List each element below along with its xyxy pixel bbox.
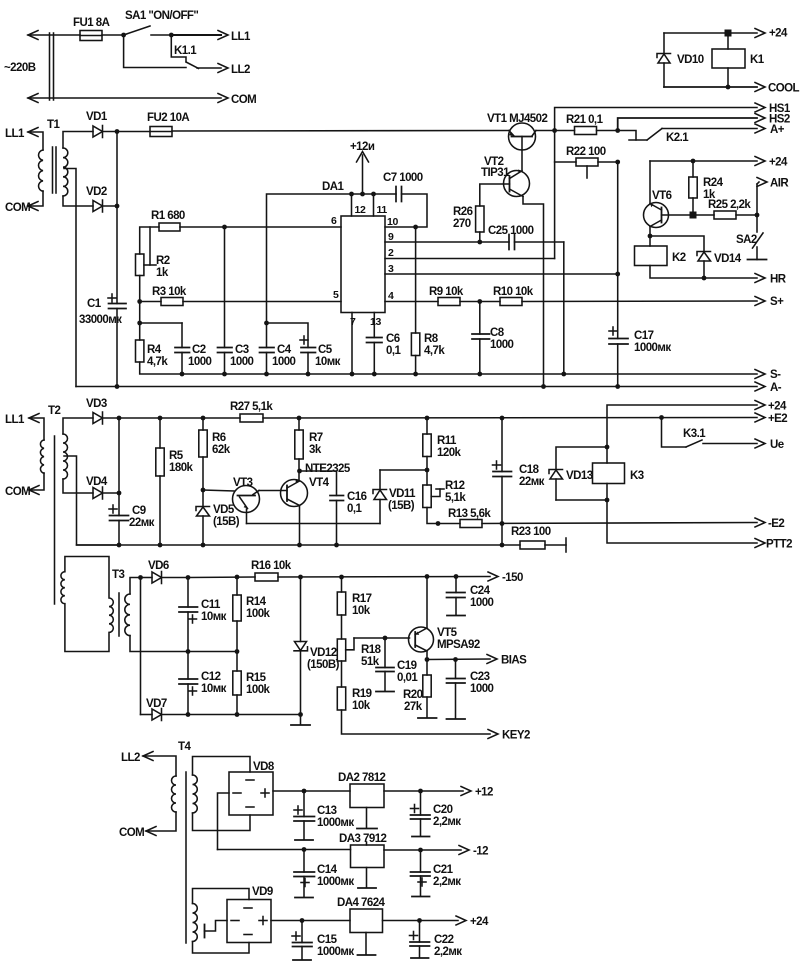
- svg-text:0,1: 0,1: [347, 503, 362, 515]
- junction VD4 node: [117, 491, 122, 496]
- svg-text:R19: R19: [352, 688, 372, 700]
- wire R15 bottom: [236, 695, 238, 715]
- wire FU2 to VT1: [172, 130, 509, 133]
- wire +12 feed vertical: [267, 194, 397, 323]
- wire K1.1 upper lead: [171, 35, 186, 62]
- arrow left mains bottom: [28, 94, 38, 103]
- wire mains top: [28, 34, 80, 36]
- wire to +24 arrow mid: [693, 160, 757, 162]
- resistor R1: [159, 223, 180, 231]
- wire R18 wiper: [346, 638, 354, 650]
- switch K2.1 lever: [647, 129, 662, 141]
- polarity plus C11: [189, 615, 197, 623]
- capacitor C9 top lead: [118, 493, 120, 516]
- svg-text:1000: 1000: [470, 597, 494, 609]
- arrow +24 top: [755, 29, 765, 38]
- arrow A-: [755, 382, 765, 391]
- svg-text:C8: C8: [490, 327, 505, 339]
- svg-text:COM: COM: [5, 486, 30, 498]
- transistor VT4: [281, 480, 308, 507]
- svg-text:R24: R24: [703, 177, 724, 189]
- svg-text:2,2мк: 2,2мк: [433, 876, 461, 888]
- wire rectifier bus: [116, 132, 118, 207]
- wire R22 drop: [554, 131, 556, 259]
- svg-text:13: 13: [370, 316, 381, 328]
- svg-text:12: 12: [355, 204, 366, 216]
- capacitor C21: [411, 872, 431, 876]
- wire K2 bottom to HR: [650, 266, 757, 279]
- svg-text:SA2: SA2: [736, 234, 757, 246]
- wire K2.1 feed: [618, 131, 636, 141]
- wire DA2 ground pin: [366, 808, 368, 829]
- svg-text:R20: R20: [403, 689, 423, 701]
- wire T1 secondary bottom lead: [63, 196, 93, 206]
- capacitor C5: [301, 348, 316, 353]
- wire LL1 to T1 primary: [28, 132, 43, 150]
- svg-text:R23 100: R23 100: [511, 526, 551, 538]
- junction C8 top: [477, 299, 482, 304]
- wire T3 secondary top lead: [130, 578, 141, 595]
- wire VT1 emitter side to R21 node: [536, 130, 555, 132]
- ground SA2: [748, 259, 767, 261]
- wire R11 bottom: [426, 457, 428, 471]
- wire R9 to R10: [460, 301, 500, 303]
- junction rectifier bottom: [115, 204, 120, 209]
- wire R25 right: [736, 214, 757, 216]
- junction R8 on S-: [413, 372, 418, 377]
- transistor VT3: [233, 486, 260, 513]
- svg-text:MPSA92: MPSA92: [437, 639, 480, 651]
- junction C2 branch: [137, 321, 142, 326]
- wire R3 left lead: [140, 301, 161, 303]
- wire R17 to R18: [341, 615, 343, 639]
- svg-text:LL1: LL1: [5, 128, 25, 140]
- resistor R12 trimmer leads: [426, 470, 428, 485]
- junction K1 bottom: [726, 85, 731, 90]
- diode VD4: [93, 487, 103, 499]
- svg-text:HR: HR: [770, 274, 787, 286]
- svg-text:120k: 120k: [437, 447, 462, 459]
- svg-text:+24: +24: [769, 28, 788, 40]
- capacitor C5 bottom lead: [307, 353, 309, 375]
- svg-text:C16: C16: [347, 491, 367, 503]
- svg-text:3k: 3k: [309, 444, 322, 456]
- transistor VT5: [409, 627, 434, 652]
- capacitor C18 bottom lead: [501, 477, 503, 524]
- pin 11 lead: [373, 194, 375, 216]
- capacitor C12: [179, 679, 198, 684]
- svg-text:C7 1000: C7 1000: [383, 172, 423, 184]
- capacitor C6 bottom lead: [373, 343, 375, 375]
- junction C20 top: [418, 789, 423, 794]
- wire VT2 base to R26: [480, 184, 510, 206]
- junction C5 on S-: [306, 372, 311, 377]
- wire R12 to R13: [427, 508, 460, 524]
- polarity plus C17: [609, 327, 617, 335]
- capacitor C8: [472, 334, 490, 339]
- relay coil K1: [712, 49, 745, 68]
- arrow HS1: [755, 103, 765, 112]
- terminator R23: [565, 538, 567, 552]
- svg-text:R12: R12: [445, 480, 465, 492]
- svg-text:R22 100: R22 100: [566, 146, 606, 158]
- arrow +24 mid: [755, 157, 765, 166]
- svg-text:VT5: VT5: [437, 627, 458, 639]
- wire K1.1 fixed contact feed: [124, 35, 186, 68]
- arrow -12: [459, 846, 469, 855]
- wire LL1 to T2 primary: [29, 418, 44, 440]
- resistor R19: [337, 687, 345, 710]
- capacitor C20: [411, 815, 431, 819]
- svg-text:K3.1: K3.1: [683, 428, 706, 440]
- svg-text:(15В): (15В): [213, 516, 240, 528]
- svg-text:+24: +24: [470, 916, 489, 928]
- svg-text:AIR: AIR: [770, 178, 789, 190]
- wire VT5 emitter riser: [426, 577, 428, 629]
- IC DA1: [341, 216, 385, 313]
- svg-text:R5: R5: [169, 450, 184, 462]
- polarity plus C5: [300, 336, 308, 344]
- svg-text:S+: S+: [770, 296, 784, 308]
- junction VT6 base node: [690, 212, 697, 219]
- arrow COM T2: [29, 486, 39, 495]
- resistor R20 leads: [426, 660, 428, 676]
- wire R2 to R3 node: [139, 276, 141, 302]
- svg-text:62k: 62k: [212, 444, 231, 456]
- junction C23 top: [453, 657, 458, 662]
- svg-text:VD3: VD3: [86, 398, 107, 410]
- power +12i arrow: [357, 152, 369, 195]
- transformer T4 secondary2 winding: [193, 904, 198, 942]
- junction R14 top: [235, 575, 240, 580]
- junction VD6 VD7 node: [138, 575, 143, 580]
- capacitor C14 top lead: [303, 850, 305, 873]
- junction R5 top: [158, 416, 163, 421]
- svg-text:(15В): (15В): [388, 500, 415, 512]
- arrow BIAS: [487, 655, 497, 664]
- wire R24 bottom: [692, 198, 694, 215]
- polarity plus C14: [301, 879, 309, 887]
- capacitor C3: [218, 348, 233, 353]
- junction R17 top: [339, 575, 344, 580]
- wire T1 center tap: [64, 169, 76, 387]
- svg-text:K1.1: K1.1: [174, 45, 197, 57]
- svg-text:27k: 27k: [404, 701, 423, 713]
- arrow LL2: [218, 64, 228, 73]
- resistor R17: [337, 592, 345, 615]
- wire VD8 plus to DA2: [273, 790, 350, 792]
- junction C16 on rail2: [334, 543, 339, 548]
- wire T1 primary to COM: [28, 191, 43, 206]
- svg-text:180k: 180k: [169, 462, 194, 474]
- wire DA3 ground pin stub: [366, 842, 368, 845]
- wire -12 line: [218, 849, 351, 851]
- capacitor C11 bottom lead: [187, 612, 189, 652]
- wire SA2 upper: [756, 215, 758, 232]
- svg-text:R1 680: R1 680: [151, 210, 185, 222]
- wire VT6 base to R24 node: [662, 214, 694, 216]
- capacitor C3 top lead: [224, 227, 226, 348]
- junction R3 node: [137, 299, 142, 304]
- diode VD13 zener: [549, 470, 563, 501]
- wire K1 top lead: [727, 33, 729, 49]
- svg-text:NTE2325: NTE2325: [305, 463, 351, 475]
- junction R21 right: [615, 128, 620, 133]
- svg-text:4,7k: 4,7k: [147, 356, 168, 368]
- wire A- rail: [76, 386, 757, 388]
- wire DA4 out: [383, 920, 459, 922]
- capacitor C15 top lead: [301, 921, 303, 943]
- diode VD7: [152, 709, 162, 721]
- svg-text:K1: K1: [750, 54, 765, 66]
- svg-text:2,2мк: 2,2мк: [434, 946, 462, 958]
- junction C3 on S-: [222, 372, 227, 377]
- junction VT4 on rail2: [297, 543, 302, 548]
- wire VD13 top: [556, 447, 607, 470]
- terminator C15: [293, 959, 311, 961]
- terminator R20: [418, 717, 437, 719]
- capacitor C18 top lead: [501, 418, 503, 472]
- svg-text:LL2: LL2: [121, 752, 140, 764]
- junction R8 top: [413, 225, 418, 230]
- resistor R4: [136, 340, 144, 362]
- resistor R24: [689, 177, 697, 198]
- wire top line to R16: [188, 576, 255, 579]
- svg-text:VD12: VD12: [310, 647, 337, 659]
- terminator C14: [295, 897, 313, 899]
- junction C13 top: [302, 789, 307, 794]
- wire R19 to KEY2: [342, 710, 491, 734]
- svg-text:(150В): (150В): [307, 659, 340, 671]
- resistor R15 leads: [236, 652, 238, 672]
- capacitor C2 top lead: [181, 323, 183, 348]
- svg-text:C17: C17: [634, 330, 654, 342]
- svg-text:~220В: ~220В: [4, 62, 36, 74]
- capacitor C13 leads: [303, 791, 305, 817]
- switch SA2 lever: [753, 233, 764, 248]
- svg-text:+E2: +E2: [768, 413, 787, 425]
- wire T3 secondary bottom to mid rail: [130, 636, 237, 652]
- svg-text:1000мк: 1000мк: [317, 876, 354, 888]
- wire secondary2 top lead: [193, 889, 250, 904]
- svg-text:C20: C20: [433, 804, 453, 816]
- wire DA3 bottom pin: [366, 868, 368, 888]
- capacitor C17 bottom lead: [617, 344, 619, 387]
- wire HS1 riser: [555, 108, 757, 131]
- polarity plus C1: [108, 294, 116, 302]
- capacitor C23 bottom lead: [455, 683, 457, 719]
- wire +24 VT6 line: [650, 160, 693, 162]
- svg-text:1000мк: 1000мк: [317, 817, 354, 829]
- junction K3 VD13 top: [605, 445, 610, 450]
- resistor R15: [233, 671, 241, 695]
- svg-text:T2: T2: [48, 405, 60, 417]
- junction C4 top: [264, 321, 269, 326]
- junction C24 top: [454, 574, 459, 579]
- wire R13 to -E2: [482, 523, 757, 524]
- svg-text:BIAS: BIAS: [501, 655, 527, 667]
- transistor VT1: [509, 123, 537, 150]
- diode VD12 zener: [294, 642, 308, 715]
- junction C14 top: [302, 847, 307, 852]
- wire E2 top rail right: [263, 417, 757, 420]
- wire VT1 base to VT2: [521, 137, 523, 171]
- svg-text:Ue: Ue: [770, 439, 784, 451]
- wire to Ue arrow: [703, 443, 757, 445]
- capacitor C9: [110, 516, 129, 521]
- svg-text:R25 2,2k: R25 2,2k: [708, 199, 751, 211]
- junction C21 top: [418, 848, 423, 853]
- wire VD13 bottom: [556, 499, 607, 501]
- polarity plus C21: [418, 878, 426, 886]
- junction C9 on rail2: [117, 543, 122, 548]
- wire R21 left lead: [555, 130, 575, 132]
- junction R13 left: [436, 521, 441, 526]
- arrow COM: [218, 94, 228, 103]
- diode VD1: [93, 126, 103, 138]
- wire VT2 collector to A-: [523, 197, 544, 387]
- wire R14 bottom: [236, 621, 238, 652]
- svg-text:VD4: VD4: [86, 476, 108, 488]
- wire to C2: [140, 322, 182, 324]
- terminator C13: [295, 839, 313, 841]
- svg-text:R9 10k: R9 10k: [429, 286, 464, 298]
- svg-text:C6: C6: [386, 333, 400, 345]
- svg-text:R14: R14: [246, 596, 267, 608]
- wire VD2 to node: [103, 205, 118, 207]
- terminator C22: [411, 957, 429, 959]
- svg-text:K2.1: K2.1: [666, 132, 689, 144]
- capacitor C4 bottom lead: [266, 353, 268, 375]
- wire K2 top lead: [649, 236, 651, 246]
- capacitor C12 top lead: [187, 652, 189, 680]
- junction R22 right: [615, 160, 620, 165]
- resistor R8: [411, 333, 419, 356]
- capacitor C16: [330, 496, 344, 501]
- arrow LL1: [218, 31, 228, 40]
- svg-text:DA4 7624: DA4 7624: [337, 897, 386, 909]
- arrow COOL: [755, 83, 765, 92]
- diode VD12 zener leads: [300, 577, 302, 642]
- arrow left mains top: [28, 31, 38, 40]
- svg-text:COOL: COOL: [768, 83, 800, 95]
- wire K2 node to VD14: [650, 236, 704, 252]
- pin 3 wire: [385, 273, 618, 275]
- resistor R18 trimmer: [337, 639, 345, 661]
- wire K2.1 contact: [629, 139, 647, 141]
- wire DA2 out: [384, 790, 463, 792]
- resistor R3: [161, 298, 183, 306]
- svg-text:33000мк: 33000мк: [79, 314, 122, 326]
- wire R7 to VT4 emitter: [298, 459, 300, 481]
- resistor R11: [423, 434, 431, 457]
- svg-text:TIP31: TIP31: [481, 167, 510, 179]
- svg-text:C3: C3: [235, 344, 249, 356]
- resistor R10: [500, 298, 522, 306]
- svg-text:DA1: DA1: [322, 181, 345, 193]
- capacitor C7: [396, 187, 402, 202]
- svg-text:VT1 MJ4502: VT1 MJ4502: [487, 113, 547, 125]
- svg-text:3: 3: [388, 263, 394, 275]
- svg-text:+24: +24: [768, 401, 787, 413]
- wire R22 right column to pin3: [617, 162, 619, 274]
- svg-text:R11: R11: [437, 435, 457, 447]
- svg-text:VT6: VT6: [652, 190, 672, 202]
- svg-text:R21 0,1: R21 0,1: [566, 114, 604, 126]
- terminator C20: [412, 836, 430, 838]
- relay coil K2: [635, 246, 668, 266]
- svg-text:VD5: VD5: [213, 504, 235, 516]
- svg-text:VD6: VD6: [148, 560, 169, 572]
- svg-text:R27 5,1k: R27 5,1k: [230, 401, 273, 413]
- wire K1 bottom lead: [727, 68, 729, 87]
- svg-text:10мк: 10мк: [201, 611, 227, 623]
- svg-text:C5: C5: [318, 344, 333, 356]
- wire T2 center tap: [64, 456, 119, 545]
- svg-text:VD2: VD2: [86, 186, 107, 198]
- transformer T3 link loop: [61, 557, 113, 652]
- capacitor C21 bottom lead: [420, 876, 422, 896]
- svg-text:5: 5: [333, 289, 339, 301]
- svg-text:C14: C14: [317, 864, 338, 876]
- arrow +24 K3: [755, 401, 765, 410]
- capacitor C2: [175, 348, 190, 353]
- junction C8 on S-: [477, 372, 482, 377]
- svg-text:VT4: VT4: [309, 477, 330, 489]
- wire R8 to S-: [415, 356, 417, 375]
- capacitor C11: [179, 607, 198, 612]
- svg-text:100k: 100k: [246, 684, 271, 696]
- arrow LL2 T4: [143, 752, 153, 761]
- svg-text:7: 7: [350, 316, 356, 328]
- diode VD10 zener: [657, 33, 671, 87]
- resistor R5 leads: [159, 418, 161, 448]
- resistor R9: [438, 298, 460, 306]
- junction C25 drop on S-: [561, 372, 566, 377]
- svg-text:+24: +24: [769, 157, 788, 169]
- polarity plus C9: [109, 505, 117, 513]
- svg-text:LL1: LL1: [231, 31, 251, 43]
- svg-text:1000: 1000: [490, 339, 514, 351]
- wire VT3 to VT4 base: [259, 490, 287, 492]
- transformer T4 primary winding: [172, 776, 177, 812]
- wire SA2 lower: [756, 247, 758, 260]
- svg-text:R2: R2: [156, 255, 170, 267]
- svg-text:A-: A-: [770, 382, 782, 394]
- arrow PTT2: [755, 539, 765, 548]
- capacitor C17: [609, 339, 628, 345]
- svg-text:S-: S-: [770, 369, 781, 381]
- polarity plus C12: [189, 687, 197, 695]
- arrow -E2: [755, 518, 765, 527]
- wire R21 right: [597, 130, 618, 132]
- svg-text:C25 1000: C25 1000: [488, 225, 534, 237]
- svg-text:2,2мк: 2,2мк: [433, 816, 461, 828]
- wire R16 to -150 line: [278, 576, 490, 579]
- transformer T4 secondary1 winding: [193, 775, 198, 813]
- polarity plus C20: [411, 805, 419, 813]
- svg-text:R6: R6: [212, 432, 226, 444]
- arrow +12: [461, 787, 471, 796]
- resistor R11 leads: [426, 418, 428, 434]
- svg-text:C22: C22: [434, 934, 454, 946]
- svg-text:-E2: -E2: [768, 518, 784, 530]
- transformer T1 core: [53, 147, 57, 193]
- wire to A+ arrow: [662, 128, 757, 130]
- capacitor C12 bottom lead: [187, 684, 189, 715]
- junction R14 R15 mid: [235, 649, 240, 654]
- polarity plus C22: [410, 932, 418, 940]
